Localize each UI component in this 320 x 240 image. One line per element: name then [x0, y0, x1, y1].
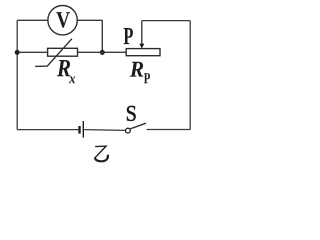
wire: bottom horizontal, left corner to battery — [17, 129, 78, 131]
switch S: pivot circle — [126, 128, 131, 133]
adjustment slash of Rx with bent foot — [35, 39, 72, 67]
label S — [127, 106, 136, 121]
label P (wiper) — [124, 28, 133, 44]
wiper arrow of RP — [141, 21, 143, 45]
voltmeter V (circle) — [48, 6, 77, 35]
caption 乙 bottom hook stroke — [95, 155, 108, 162]
wire: switch fixed contact to bottom-right corner — [147, 129, 191, 131]
battery cell: short thick negative plate — [78, 126, 80, 134]
potentiometer RP (rectangle body) — [126, 49, 160, 56]
caption 乙 top bar and diagonal — [95, 146, 106, 158]
node: left junction dot — [15, 50, 20, 55]
wiper arrowhead — [139, 44, 144, 49]
battery cell: long thin positive plate — [82, 121, 84, 138]
caption 乙 (diagram label, drawn glyph) — [95, 146, 108, 161]
voltmeter label V — [56, 12, 70, 28]
wire: battery to switch pivot — [84, 129, 125, 132]
wire: top-right horizontal from wiper to top-right corner — [142, 20, 190, 22]
label Rx subscript x — [69, 77, 75, 84]
label Rx — [57, 60, 70, 76]
node: right junction dot — [100, 50, 105, 55]
wire: vertical drop from voltmeter branch to junction node — [101, 20, 103, 52]
wire: top-left horizontal from corner to voltmeter left terminal — [17, 19, 48, 21]
wire: Rx right side to junction and on to potentiometer left terminal — [78, 51, 127, 53]
label RP subscript P — [144, 73, 150, 83]
resistor Rx (rectangle body) — [48, 48, 78, 56]
wire: right vertical from top-right corner to bottom-right corner — [189, 21, 191, 130]
label RP — [130, 62, 144, 77]
switch S: open lever — [130, 123, 146, 129]
wire: left vertical from voltmeter branch corner down to bottom-left corner — [16, 20, 18, 129]
wire: voltmeter right terminal to corner above junction — [77, 19, 102, 21]
wire: main horizontal line, left dot to Rx — [17, 51, 47, 53]
